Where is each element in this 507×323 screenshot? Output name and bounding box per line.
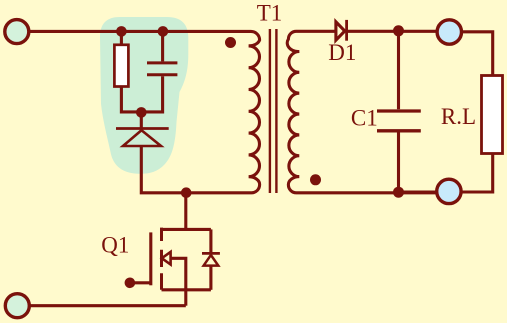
polarity dot secondary bbox=[310, 174, 321, 185]
wire: snubber bottom to primary-bottom node bbox=[141, 146, 186, 193]
body diode bottom lead bbox=[209, 266, 212, 290]
junction dot RC-diode node bbox=[136, 107, 147, 118]
gate endpoint dot bbox=[125, 278, 136, 289]
resistor (snubber clamp) bbox=[114, 45, 128, 87]
polarity dot primary bbox=[225, 37, 236, 48]
diode D1 cathode bar bbox=[345, 20, 348, 41]
body diode top lead bbox=[209, 229, 212, 252]
terminal output + bbox=[437, 20, 461, 44]
wire: output node to terminal bbox=[462, 32, 493, 76]
wire: source to bottom rail bbox=[184, 290, 187, 306]
svg-text:Q1: Q1 bbox=[101, 232, 129, 257]
junction dot C tap bbox=[158, 26, 169, 37]
MOSFET Q1 gate line bbox=[149, 232, 152, 285]
capacitor C1 top lead bbox=[397, 31, 400, 109]
terminal input + bbox=[5, 20, 29, 44]
wire: snubber C top tap bbox=[161, 31, 164, 61]
capacitor C1 bottom lead bbox=[397, 132, 400, 192]
terminal output - bbox=[437, 179, 461, 203]
svg-text:T1: T1 bbox=[257, 1, 283, 26]
wire: drain vertical from node bbox=[184, 193, 187, 230]
diode D1 triangle bbox=[336, 22, 345, 40]
wire: node to diode bbox=[140, 112, 143, 129]
highlight blob over snubber bbox=[100, 17, 188, 174]
wire: bottom output rail bbox=[400, 190, 437, 193]
wire top rail + transformer T1 primary winding bbox=[29, 31, 260, 192]
wire: D1 to output node bbox=[348, 30, 437, 33]
junction dot R tap bbox=[116, 26, 127, 37]
junction dot D1 output node bbox=[393, 25, 404, 36]
wire bottom rail bbox=[29, 304, 186, 307]
junction dot C1 bottom node bbox=[393, 187, 404, 198]
wire: R bottom to node bbox=[121, 87, 141, 112]
body diode triangle bbox=[204, 255, 219, 266]
wire: gate lead bbox=[130, 281, 151, 284]
resistor R.L bbox=[482, 76, 503, 154]
diode (snubber clamp) triangle bbox=[123, 130, 161, 146]
wire: R.L bottom to terminal bbox=[461, 154, 493, 193]
MOSFET Q1 source tap bbox=[162, 288, 211, 291]
transformer core lines bbox=[270, 29, 277, 193]
svg-text:R.L: R.L bbox=[441, 104, 476, 129]
capacitor C1 plates bbox=[377, 111, 421, 131]
svg-text:D1: D1 bbox=[328, 40, 356, 65]
junction dot primary bottom node bbox=[181, 187, 192, 198]
body diode cathode bar bbox=[202, 252, 220, 255]
capacitor (snubber clamp) plates bbox=[147, 63, 177, 75]
terminal input - bbox=[5, 294, 29, 318]
wire: C bottom to node bbox=[141, 76, 162, 112]
svg-text:C1: C1 bbox=[351, 106, 378, 131]
MOSFET Q1 drain tap bbox=[162, 228, 211, 231]
diode (snubber clamp) cathode bar bbox=[116, 127, 169, 130]
wire: snubber R top tap bbox=[120, 31, 123, 44]
MOSFET Q1 channel segments bbox=[160, 228, 163, 290]
transformer T1 secondary winding + wire to D1 bbox=[287, 31, 437, 193]
MOSFET Q1 body arrow bbox=[162, 252, 171, 265]
